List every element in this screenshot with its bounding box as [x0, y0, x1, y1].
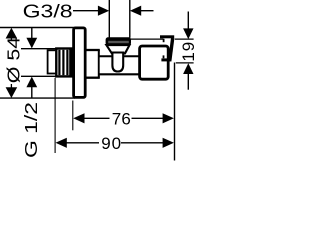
- dimension G3/8 extension line left: [108, 0, 110, 38]
- escutcheon wall plate: [74, 28, 86, 98]
- front block: [140, 46, 169, 79]
- dimension G1/2 bottom extension line: [21, 75, 56, 77]
- pipe tip: [48, 50, 57, 73]
- dimension 19 arrow down: [183, 28, 193, 39]
- body narrow tube fill: [100, 57, 140, 73]
- handle bottom foot: [161, 58, 170, 61]
- body collar fill: [87, 51, 99, 76]
- dimension 90 dim line: [65, 142, 100, 144]
- handle top return: [163, 39, 165, 42]
- dimension 76 arrow left: [73, 113, 84, 123]
- dimension G3/8 arrow left: [73, 10, 100, 12]
- dimension G1/2 dim line upper: [31, 28, 33, 40]
- valve seat pocket: [112, 53, 123, 72]
- handle foot return: [163, 55, 165, 58]
- thread end bar: [69, 49, 74, 77]
- body narrow tube top line: [99, 55, 141, 57]
- dimension 90 arrow right: [163, 138, 174, 148]
- dimension D54 bottom extension line: [0, 97, 75, 99]
- bonnet trapezoid: [106, 45, 129, 53]
- svg-text:G 1/2: G 1/2: [21, 102, 41, 158]
- dimension 90 extension line: [54, 78, 56, 153]
- reference line right: [174, 63, 176, 161]
- handle disc top bar: [160, 35, 174, 38]
- dimension D54 arrow down: [6, 87, 18, 98]
- dimension 19 dim line lower: [187, 72, 189, 89]
- dimension G1/2 top extension line: [21, 48, 56, 50]
- body collar bottom line: [86, 77, 100, 79]
- dimension 19 top extension line: [130, 38, 163, 40]
- dimension D54 arrow up: [6, 28, 18, 39]
- cap handle top: [106, 37, 131, 45]
- dimension 19 arrow up: [183, 63, 193, 74]
- svg-text:19: 19: [179, 41, 198, 62]
- dimension G3/8 extension line right: [129, 0, 131, 38]
- pipe thread G1/2: [56, 49, 73, 77]
- body collar top line: [86, 49, 100, 51]
- body step joint line: [98, 50, 100, 78]
- dimension G1/2 arrow down: [26, 38, 37, 49]
- dimension G3/8 arrow right: [140, 10, 154, 12]
- dimension D54 top extension line: [0, 27, 75, 29]
- svg-text:90: 90: [101, 134, 122, 153]
- handle disc edge: [170, 38, 173, 61]
- dimension G1/2 dim line lower: [31, 86, 33, 98]
- dimension 19 dim line upper: [187, 12, 189, 31]
- body narrow tube bottom line: [99, 73, 141, 75]
- svg-text:Ø 54: Ø 54: [3, 36, 23, 83]
- svg-text:G3/8: G3/8: [23, 1, 73, 21]
- dimension 76 arrow right: [163, 113, 174, 123]
- dimension G1/2 arrow up: [26, 77, 37, 88]
- dimension 90 arrow left: [56, 138, 67, 148]
- dimension 19 bottom extension line: [176, 62, 194, 64]
- dimension 76 dim line: [82, 117, 110, 119]
- dimension 76 extension line: [72, 101, 74, 131]
- svg-text:76: 76: [112, 109, 131, 128]
